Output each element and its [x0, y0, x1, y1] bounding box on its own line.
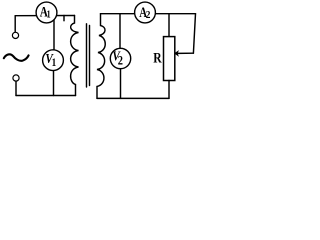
- wire V1 branch lower: [53, 71, 55, 96]
- label R: [153, 49, 162, 66]
- ammeter A2: [135, 2, 156, 23]
- voltmeter V1: [43, 50, 64, 71]
- svg-text:2: 2: [146, 10, 151, 22]
- wiper arrowhead: [174, 50, 179, 57]
- resistor R lead bottom: [168, 81, 170, 99]
- wire V1 branch upper: [53, 16, 55, 51]
- wire bottom-left horizontal: [16, 95, 76, 97]
- resistor R lead top: [168, 14, 170, 37]
- wire V2 branch lower: [120, 69, 122, 99]
- core line right: [89, 26, 91, 86]
- wiper wire: [178, 52, 193, 54]
- secondary coil L2: [97, 14, 105, 99]
- voltmeter V2: [110, 48, 130, 68]
- svg-text:R: R: [153, 49, 162, 66]
- wire top-left horizontal (primary top): [15, 15, 74, 17]
- wire right vertical upper: [193, 14, 195, 54]
- ammeter A1: [36, 2, 57, 23]
- wire left vertical to terminal: [14, 16, 16, 33]
- terminal top-left: [12, 32, 18, 38]
- wire below bottom terminal: [15, 81, 17, 95]
- primary coil L1: [71, 16, 79, 96]
- wire V2 branch upper: [119, 14, 121, 49]
- terminal bottom-left: [13, 75, 19, 81]
- svg-text:1: 1: [47, 9, 51, 20]
- wire top-right horizontal (secondary top): [101, 13, 196, 15]
- svg-text:1: 1: [52, 57, 57, 69]
- svg-text:2: 2: [118, 54, 123, 68]
- AC source tilde: [4, 54, 29, 61]
- core line left: [86, 24, 88, 87]
- wire bottom-right horizontal: [97, 97, 169, 99]
- resistor R box: [164, 37, 175, 81]
- node stub under top wire: [63, 16, 65, 21]
